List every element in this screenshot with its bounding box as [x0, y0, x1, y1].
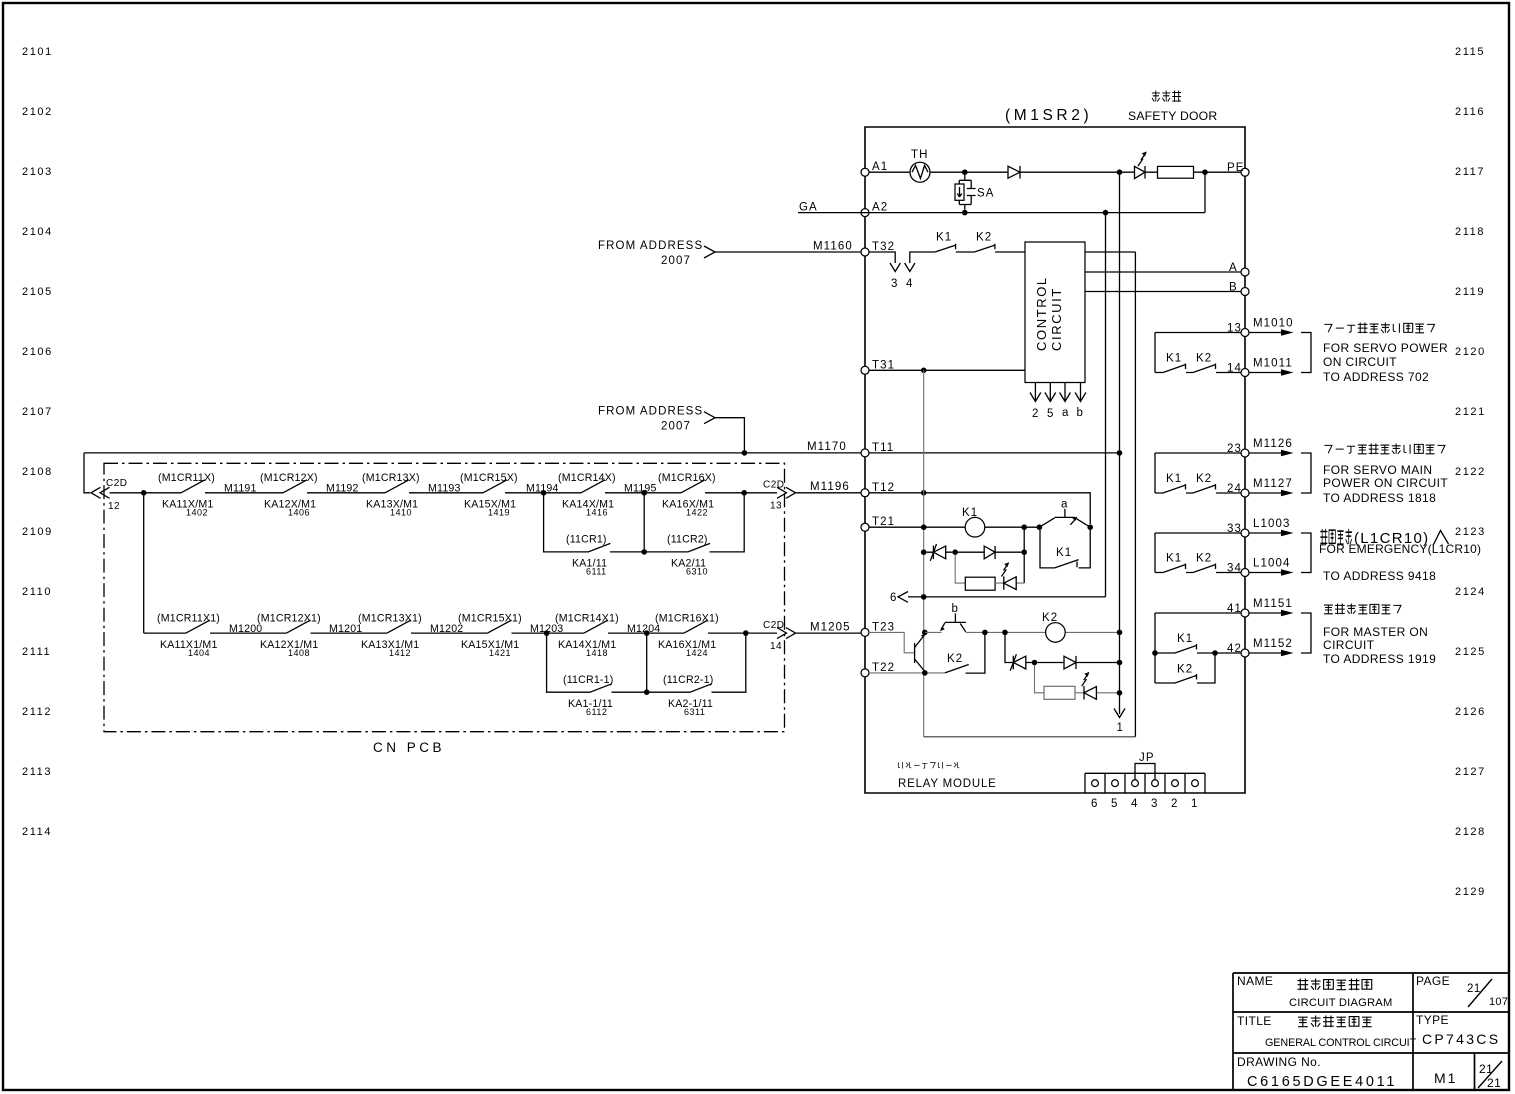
- svg-text:K1: K1: [1166, 553, 1182, 565]
- svg-text:M1170: M1170: [807, 441, 847, 453]
- junction node diode row left: [921, 549, 927, 555]
- svg-text:b: b: [952, 603, 960, 615]
- svg-text:TITLE: TITLE: [1237, 1014, 1272, 1028]
- svg-text:TO ADDRESS 702: TO ADDRESS 702: [1323, 370, 1429, 384]
- svg-text:T12: T12: [872, 482, 895, 494]
- kana relay module label: [898, 762, 902, 769]
- relay coil K1: [965, 517, 985, 537]
- svg-text:CIRCUIT DIAGRAM: CIRCUIT DIAGRAM: [1289, 997, 1393, 1009]
- jumper JP bracket: [1135, 764, 1155, 780]
- wire A2 row with GA label: [798, 212, 1205, 214]
- svg-text:GENERAL CONTROL CIRCUIT: GENERAL CONTROL CIRCUIT: [1265, 1037, 1417, 1049]
- parallel contact 11CR2: [641, 549, 647, 555]
- svg-text:2114: 2114: [22, 826, 52, 838]
- junction node diode row K2/bus: [1117, 660, 1123, 666]
- wire to T23 terminal M1205: [796, 632, 862, 634]
- resistor K1 indicator branch: [955, 555, 965, 584]
- wire row A: [1085, 271, 1241, 273]
- kanji header 安全扉: [1152, 91, 1160, 102]
- svg-text:(11CR1-1): (11CR1-1): [563, 674, 613, 686]
- relay contact KA11X1/M1: [186, 620, 210, 633]
- svg-text:2108: 2108: [22, 466, 53, 478]
- svg-text:2103: 2103: [22, 166, 53, 178]
- junction node T23/collector: [922, 630, 928, 636]
- svg-text:TO ADDRESS 1818: TO ADDRESS 1818: [1323, 491, 1436, 505]
- svg-text:1416: 1416: [586, 508, 608, 518]
- svg-text:M1127: M1127: [1253, 478, 1293, 490]
- CN PCB dashed enclosure: [104, 463, 785, 731]
- svg-text:6: 6: [890, 592, 898, 604]
- junction node T21/gray vertical: [921, 524, 927, 530]
- svg-text:2: 2: [1171, 798, 1179, 810]
- svg-text:FOR EMERGENCY(L1CR10): FOR EMERGENCY(L1CR10): [1319, 542, 1481, 556]
- wire to coil K2: [966, 631, 1120, 633]
- svg-text:M1201: M1201: [329, 623, 362, 635]
- svg-text:K2: K2: [976, 232, 992, 244]
- svg-text:ON CIRCUIT: ON CIRCUIT: [1323, 355, 1397, 369]
- svg-text:2105: 2105: [22, 286, 53, 298]
- parallel contact 11CR2-1: [644, 689, 650, 695]
- svg-text:(M1CR14X1): (M1CR14X1): [555, 612, 619, 624]
- junction nodes chain2 parallel branch: [544, 630, 550, 636]
- svg-text:FROM ADDRESS: FROM ADDRESS: [598, 406, 703, 418]
- svg-text:(M1CR13X): (M1CR13X): [362, 472, 420, 484]
- svg-text:K1: K1: [1177, 633, 1193, 645]
- svg-text:(M1CR15X1): (M1CR15X1): [458, 612, 522, 624]
- svg-text:K1: K1: [936, 232, 952, 244]
- junction node resistor/PE branch: [1202, 169, 1208, 175]
- svg-text:L1004: L1004: [1253, 558, 1290, 570]
- control block output to bus: [1085, 251, 1135, 253]
- svg-text:1421: 1421: [489, 648, 511, 658]
- wire T31 row into control block: [869, 369, 1025, 371]
- connector C2D pin 14 chevrons: [777, 628, 796, 639]
- svg-text:2126: 2126: [1455, 706, 1486, 718]
- svg-text:K2: K2: [1196, 353, 1212, 365]
- svg-text:CN PCB: CN PCB: [373, 740, 445, 755]
- svg-text:K1: K1: [1056, 547, 1072, 559]
- svg-text:13: 13: [770, 501, 782, 512]
- diode K2 circuit: [1037, 662, 1119, 664]
- svg-text:DRAWING No.: DRAWING No.: [1237, 1055, 1321, 1069]
- svg-text:C6165DGEE4011: C6165DGEE4011: [1247, 1074, 1397, 1090]
- wire PE branch vertical: [1204, 172, 1206, 212]
- svg-text:GA: GA: [799, 202, 818, 214]
- svg-text:6112: 6112: [586, 707, 607, 717]
- svg-text:14: 14: [770, 641, 782, 652]
- svg-text:1418: 1418: [586, 648, 608, 658]
- relay coil K2: [1046, 623, 1066, 643]
- wire row B: [1085, 291, 1241, 293]
- svg-text:TH: TH: [911, 149, 929, 161]
- svg-text:2129: 2129: [1455, 886, 1486, 898]
- svg-text:TYPE: TYPE: [1416, 1013, 1449, 1027]
- svg-text:(M1CR13X1): (M1CR13X1): [358, 612, 422, 624]
- svg-text:1404: 1404: [188, 648, 210, 658]
- svg-text:(11CR1): (11CR1): [566, 534, 607, 546]
- junction node T22/emitter: [922, 670, 928, 676]
- junction node zener/resistor branch: [952, 549, 958, 555]
- svg-text:CIRCUIT: CIRCUIT: [1049, 287, 1064, 351]
- svg-text:K1: K1: [1166, 473, 1182, 485]
- kanji servo main power label: [1324, 445, 1332, 453]
- svg-text:6111: 6111: [586, 567, 607, 577]
- relay contact KA16X/M1: [681, 480, 705, 493]
- wire T21 row: [869, 526, 1039, 528]
- junction node T21/contact branch: [1037, 524, 1043, 530]
- svg-text:2106: 2106: [22, 346, 53, 358]
- wire chain row 1: [110, 492, 778, 494]
- svg-text:2115: 2115: [1455, 46, 1485, 58]
- svg-text:JP: JP: [1139, 752, 1155, 764]
- gray vertical bus inside module: [923, 370, 925, 737]
- svg-text:a: a: [1062, 407, 1070, 419]
- terminal circles and labels on left edge of M1SR2: [861, 161, 895, 677]
- svg-text:T21: T21: [872, 516, 895, 528]
- svg-text:a: a: [1061, 499, 1069, 511]
- wire loop from T11 row down to chain row 1: [84, 453, 90, 493]
- relay contact KA11X/M1: [181, 480, 205, 493]
- junction node zener/resistor K2: [1032, 660, 1038, 666]
- connector C2D pin 12 chevrons: [91, 487, 110, 498]
- svg-text:3: 3: [891, 278, 899, 290]
- svg-text:(11CR2-1): (11CR2-1): [663, 674, 713, 686]
- svg-text:A1: A1: [872, 161, 888, 173]
- svg-text:L1003: L1003: [1253, 518, 1290, 530]
- svg-text:21: 21: [1467, 983, 1481, 995]
- svg-text:M1160: M1160: [813, 241, 853, 253]
- junction node diode branch K2: [1002, 630, 1008, 636]
- svg-text:4: 4: [906, 278, 914, 290]
- relay contact KA13X/M1: [385, 480, 409, 493]
- svg-text:1419: 1419: [488, 508, 510, 518]
- svg-text:M1195: M1195: [624, 483, 657, 495]
- svg-text:K1: K1: [1166, 353, 1182, 365]
- diode on A1 row: [1008, 166, 1020, 178]
- contact block K1 K2 master on (41/42): [1155, 613, 1241, 683]
- svg-text:3: 3: [1151, 798, 1159, 810]
- relay contact KA15X1/M1: [488, 620, 512, 633]
- parallel contact 11CR1-1: [547, 633, 647, 692]
- svg-text:2127: 2127: [1455, 766, 1486, 778]
- junction node emitter/T12 loop: [1087, 524, 1093, 530]
- svg-text:12: 12: [108, 501, 120, 512]
- svg-text:M1: M1: [1434, 1070, 1457, 1086]
- junction nodes chain1 parallel branch: [541, 490, 547, 496]
- wire chain row 2: [144, 632, 777, 634]
- svg-text:2101: 2101: [22, 46, 53, 58]
- svg-text:RELAY MODULE: RELAY MODULE: [898, 778, 997, 790]
- svg-text:(M1CR11X): (M1CR11X): [158, 472, 215, 484]
- svg-text:M1152: M1152: [1253, 638, 1293, 650]
- svg-text:POWER ON CIRCUIT: POWER ON CIRCUIT: [1323, 476, 1448, 490]
- svg-text:2102: 2102: [22, 106, 53, 118]
- svg-text:(11CR2): (11CR2): [667, 534, 708, 546]
- svg-text:1408: 1408: [288, 648, 310, 658]
- svg-text:2120: 2120: [1455, 346, 1486, 358]
- svg-text:C2D: C2D: [106, 478, 128, 489]
- wire T23 row continues: [925, 631, 942, 633]
- svg-text:(M1SR2): (M1SR2): [1005, 107, 1092, 124]
- svg-text:107: 107: [1489, 996, 1508, 1008]
- svg-text:6310: 6310: [686, 567, 708, 577]
- junction node LED row K2/bus: [1117, 690, 1123, 696]
- svg-text:(M1CR12X1): (M1CR12X1): [257, 612, 321, 624]
- relay contact KA15X/M1: [483, 480, 507, 493]
- svg-text:K2: K2: [1177, 664, 1193, 676]
- svg-text:2111: 2111: [22, 646, 51, 658]
- svg-text:(M1CR12X): (M1CR12X): [260, 472, 318, 484]
- svg-text:FOR SERVO MAIN: FOR SERVO MAIN: [1323, 463, 1432, 477]
- svg-text:T22: T22: [872, 662, 895, 674]
- LED K2 indicator: [1075, 692, 1120, 694]
- svg-text:FROM ADDRESS: FROM ADDRESS: [598, 240, 703, 252]
- svg-text:6: 6: [1091, 798, 1099, 810]
- bus vertical from A2 to row6: [1105, 213, 1107, 597]
- svg-text:CIRCUIT: CIRCUIT: [1323, 638, 1375, 652]
- wire T12 row to transistor collector loop: [869, 493, 1090, 524]
- connector C2D pin 13 chevrons: [777, 487, 796, 498]
- thermal element TH: [910, 162, 930, 182]
- wire T22 row: [869, 672, 945, 674]
- relay contact KA12X1/M1: [287, 620, 311, 633]
- kanji master on label: [1324, 605, 1333, 614]
- svg-text:TO ADDRESS 9418: TO ADDRESS 9418: [1323, 569, 1436, 583]
- junction node T31/vertical: [921, 368, 927, 374]
- control circuit block: [1025, 242, 1085, 383]
- svg-text:1: 1: [1191, 798, 1199, 810]
- svg-text:M1204: M1204: [627, 623, 660, 635]
- arrow terminal 1 on bus: [1114, 709, 1125, 718]
- svg-text:2112: 2112: [22, 706, 52, 718]
- svg-text:M1192: M1192: [326, 483, 359, 495]
- surge absorber SA: [955, 175, 995, 210]
- connector pin arrow 4: [905, 263, 915, 272]
- node row labels right column: [1455, 46, 1486, 898]
- junction node from-address/T11: [742, 450, 748, 456]
- svg-text:M1202: M1202: [430, 623, 463, 635]
- vertical between chain rows: [143, 493, 145, 633]
- terminal circles and labels on right edge of M1SR2: [1227, 162, 1249, 657]
- svg-text:CONTROL: CONTROL: [1034, 276, 1049, 351]
- svg-text:(M1CR16X1): (M1CR16X1): [655, 612, 719, 624]
- svg-text:T11: T11: [872, 442, 894, 454]
- svg-text:5: 5: [1047, 408, 1055, 420]
- junction node at SA top: [962, 169, 968, 175]
- connector pin arrow 3: [890, 263, 900, 272]
- junction node T12/gray vertical: [921, 490, 927, 496]
- svg-text:K2: K2: [1196, 473, 1212, 485]
- wire T23 row: [869, 632, 915, 652]
- control block output arrows 2 5 a b: [1030, 383, 1086, 402]
- svg-text:5: 5: [1111, 798, 1119, 810]
- relay contact KA14X/M1: [581, 480, 605, 493]
- zener diode K2 circuit: [1005, 635, 1032, 663]
- svg-text:M1151: M1151: [1253, 598, 1293, 610]
- svg-text:2109: 2109: [22, 526, 53, 538]
- svg-text:M1200: M1200: [229, 623, 262, 635]
- node row labels left column: [22, 46, 53, 838]
- junction node A1/vertical: [1117, 169, 1123, 175]
- LED K1 indicator: [995, 582, 1024, 584]
- svg-text:2116: 2116: [1455, 106, 1485, 118]
- junction node T11/bus: [869, 452, 1120, 454]
- relay contact KA16X1/M1: [684, 620, 708, 633]
- junction node row6/gray vertical: [921, 594, 927, 600]
- kanji title 電気回路線図: [1298, 979, 1309, 991]
- svg-text:21: 21: [1487, 1076, 1501, 1090]
- svg-text:(M1CR11X1): (M1CR11X1): [157, 612, 220, 624]
- contact block K1 K2 servo power (13/14): [1155, 333, 1241, 373]
- svg-text:2107: 2107: [22, 406, 53, 418]
- parallel contact 11CR1: [544, 493, 645, 552]
- svg-text:K2: K2: [1042, 612, 1058, 624]
- zener diode K1 circuit: [927, 551, 953, 553]
- phototransistor a: [1039, 499, 1090, 528]
- relay return bottom wire: [924, 736, 1136, 738]
- junction node A2/vertical to row6: [1103, 210, 1109, 216]
- svg-text:2007: 2007: [661, 421, 691, 433]
- junction node coil/bus: [1117, 630, 1123, 636]
- svg-text:1402: 1402: [186, 508, 208, 518]
- svg-text:K2: K2: [947, 653, 963, 665]
- junction node diode row right: [1021, 549, 1027, 555]
- contact K2 on T22 row: [945, 635, 985, 673]
- contact K1 parallel with phototransistor: [1040, 530, 1090, 568]
- svg-text:2128: 2128: [1455, 826, 1486, 838]
- svg-text:K1: K1: [962, 507, 978, 519]
- svg-text:TO ADDRESS 1919: TO ADDRESS 1919: [1323, 652, 1436, 666]
- svg-text:M1191: M1191: [224, 483, 257, 495]
- svg-text:(M1CR14X): (M1CR14X): [558, 472, 616, 484]
- contact K2 on T32 row: [974, 244, 1025, 252]
- junction node chain1 drop: [141, 490, 147, 496]
- diode K1 circuit: [958, 551, 1021, 553]
- svg-text:2119: 2119: [1455, 286, 1485, 298]
- svg-text:2118: 2118: [1455, 226, 1485, 238]
- svg-text:(M1CR16X): (M1CR16X): [658, 472, 716, 484]
- kanji subtitle 総合制御回路: [1298, 1017, 1308, 1026]
- wire A1 row: [869, 171, 1241, 173]
- wire from address 2007 to T32 (M1160): [715, 251, 861, 253]
- svg-text:1: 1: [1117, 722, 1125, 734]
- svg-text:1412: 1412: [389, 648, 411, 658]
- relay contact KA12X/M1: [283, 480, 307, 493]
- svg-text:6311: 6311: [684, 707, 705, 717]
- svg-text:T32: T32: [872, 241, 895, 253]
- junction node T21/diode branch: [1021, 524, 1027, 530]
- wire T11 row: [84, 452, 861, 454]
- svg-text:M1196: M1196: [810, 481, 850, 493]
- svg-text:FOR SERVO POWER: FOR SERVO POWER: [1323, 341, 1448, 355]
- kanji emergency stop label: [1320, 529, 1327, 545]
- wire T32 row with connector drop arrows: [869, 252, 935, 263]
- resistor K2 indicator branch: [1035, 665, 1045, 693]
- title block: [1233, 973, 1509, 1091]
- svg-text:1410: 1410: [390, 508, 412, 518]
- svg-text:M1010: M1010: [1253, 318, 1294, 330]
- svg-text:T31: T31: [872, 359, 895, 371]
- contact block K1 K2 emergency (33/34): [1155, 533, 1241, 573]
- junction node A2/SA bottom: [962, 210, 968, 216]
- svg-text:2121: 2121: [1455, 406, 1486, 418]
- kanji servo power label: [1324, 324, 1332, 332]
- svg-text:2113: 2113: [22, 766, 52, 778]
- svg-text:K2: K2: [1196, 553, 1212, 565]
- junction node contact K2 branch: [982, 630, 988, 636]
- svg-text:M1193: M1193: [428, 483, 461, 495]
- svg-text:T23: T23: [872, 621, 895, 633]
- resistor on A1 row: [1158, 166, 1194, 178]
- svg-text:C2D: C2D: [763, 620, 785, 631]
- svg-text:2117: 2117: [1455, 166, 1485, 178]
- svg-text:2123: 2123: [1455, 526, 1486, 538]
- phototransistor b: [940, 603, 966, 632]
- svg-text:A2: A2: [872, 202, 888, 214]
- svg-text:4: 4: [1131, 798, 1139, 810]
- svg-text:1422: 1422: [686, 508, 708, 518]
- transistor Q (driver): [915, 634, 926, 672]
- svg-text:2110: 2110: [22, 586, 52, 598]
- svg-text:1424: 1424: [686, 648, 708, 658]
- relay module enclosure box M1SR2: [865, 107, 1245, 793]
- contact block K1 K2 servo main power (23/24): [1155, 453, 1241, 493]
- connector JP 6-pin: [1085, 773, 1205, 793]
- svg-text:2124: 2124: [1455, 586, 1486, 598]
- svg-text:1406: 1406: [288, 508, 310, 518]
- bus vertical from A1 down to arrow 1: [1119, 172, 1121, 714]
- svg-text:2104: 2104: [22, 226, 53, 238]
- wire to T12 terminal M1196: [796, 492, 862, 494]
- svg-text:PAGE: PAGE: [1416, 974, 1450, 988]
- svg-text:NAME: NAME: [1237, 974, 1273, 988]
- svg-text:M1205: M1205: [810, 621, 851, 633]
- svg-text:CP743CS: CP743CS: [1422, 1031, 1500, 1047]
- svg-text:2125: 2125: [1455, 646, 1486, 658]
- svg-text:M1011: M1011: [1253, 358, 1293, 370]
- svg-text:2007: 2007: [661, 255, 691, 267]
- svg-text:(M1CR15X): (M1CR15X): [460, 472, 518, 484]
- svg-text:C2D: C2D: [763, 480, 785, 491]
- svg-text:FOR MASTER ON: FOR MASTER ON: [1323, 625, 1428, 639]
- svg-text:b: b: [1077, 407, 1085, 419]
- svg-text:M1126: M1126: [1253, 438, 1293, 450]
- svg-text:2: 2: [1032, 408, 1040, 420]
- svg-text:SA: SA: [977, 188, 995, 200]
- bus vertical from control block to relay return: [1134, 252, 1136, 737]
- svg-text:SAFETY DOOR: SAFETY DOOR: [1128, 109, 1217, 123]
- contact K1 on T32 row: [935, 244, 974, 252]
- svg-text:2122: 2122: [1455, 466, 1486, 478]
- relay contact KA14X1/M1: [584, 620, 608, 633]
- relay contact KA13X1/M1: [387, 620, 411, 633]
- LED indicator on A1 row: [1135, 166, 1146, 178]
- wire from address 2007 lower: [715, 418, 744, 453]
